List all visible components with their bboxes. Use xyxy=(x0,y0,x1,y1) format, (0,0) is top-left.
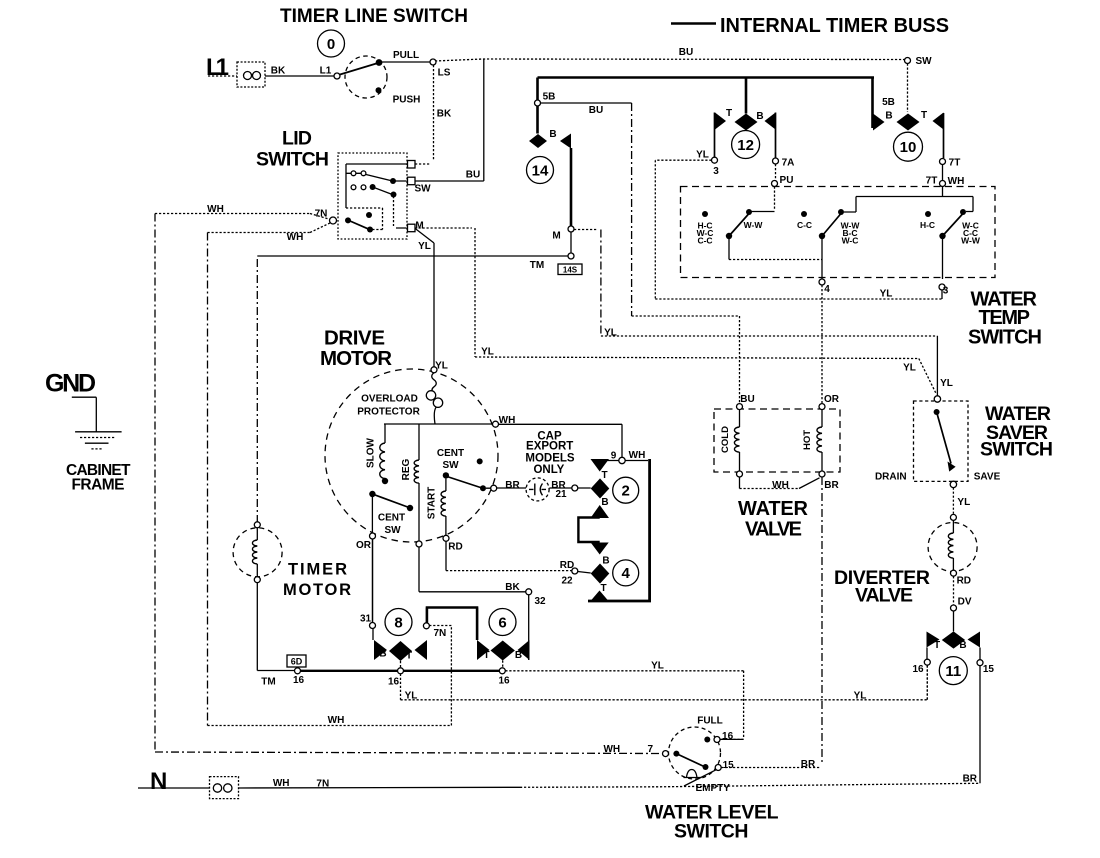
svg-text:T: T xyxy=(600,583,606,594)
svg-text:LS: LS xyxy=(438,68,451,79)
svg-text:BR: BR xyxy=(505,480,520,491)
svg-text:HOT: HOT xyxy=(802,430,813,450)
svg-text:RD: RD xyxy=(957,576,971,587)
svg-text:LID: LID xyxy=(282,128,312,150)
svg-text:ONLY: ONLY xyxy=(533,464,564,476)
svg-text:4: 4 xyxy=(824,284,830,295)
svg-text:W-W: W-W xyxy=(961,235,981,245)
svg-text:BK: BK xyxy=(505,582,520,593)
svg-text:7: 7 xyxy=(648,744,654,755)
svg-text:M: M xyxy=(415,221,423,232)
svg-text:GND: GND xyxy=(45,370,96,398)
svg-text:W-W: W-W xyxy=(744,220,764,230)
svg-text:32: 32 xyxy=(534,596,546,607)
svg-text:SWITCH: SWITCH xyxy=(256,149,329,171)
svg-text:15: 15 xyxy=(723,760,735,771)
svg-text:YL: YL xyxy=(435,361,448,372)
svg-text:CENT: CENT xyxy=(437,448,464,459)
svg-text:SWITCH: SWITCH xyxy=(980,439,1053,461)
svg-text:TIMER: TIMER xyxy=(288,561,347,579)
svg-text:4: 4 xyxy=(622,565,631,582)
svg-text:12: 12 xyxy=(737,137,754,154)
svg-text:BK: BK xyxy=(271,66,286,77)
svg-text:YL: YL xyxy=(418,241,431,252)
svg-text:MOTOR: MOTOR xyxy=(283,581,351,599)
svg-text:C-C: C-C xyxy=(797,220,812,230)
svg-text:31: 31 xyxy=(360,614,372,625)
svg-text:SW: SW xyxy=(442,460,459,471)
svg-text:T: T xyxy=(406,651,412,662)
svg-text:N: N xyxy=(150,768,167,795)
svg-text:YL: YL xyxy=(903,363,916,374)
svg-text:7T: 7T xyxy=(949,158,961,169)
svg-text:WH: WH xyxy=(772,480,789,491)
svg-text:TIMER LINE SWITCH: TIMER LINE SWITCH xyxy=(280,5,468,27)
svg-text:YL: YL xyxy=(957,497,970,508)
svg-text:B: B xyxy=(379,649,386,660)
svg-text:T: T xyxy=(483,650,489,661)
svg-text:22: 22 xyxy=(561,576,573,587)
svg-text:16: 16 xyxy=(293,675,305,686)
svg-text:YL: YL xyxy=(940,378,953,389)
svg-text:B: B xyxy=(549,129,556,140)
svg-text:WH: WH xyxy=(287,232,304,243)
svg-text:WH: WH xyxy=(948,176,965,187)
svg-text:REG: REG xyxy=(401,458,412,480)
svg-text:VALVE: VALVE xyxy=(855,585,913,607)
svg-text:B: B xyxy=(885,111,892,122)
svg-text:8: 8 xyxy=(394,614,402,631)
svg-text:T: T xyxy=(934,640,940,651)
svg-text:15: 15 xyxy=(983,664,995,675)
svg-text:7T: 7T xyxy=(926,176,938,187)
svg-text:21: 21 xyxy=(555,489,567,500)
svg-text:5B: 5B xyxy=(882,97,895,108)
svg-text:2: 2 xyxy=(622,483,630,500)
svg-text:SW: SW xyxy=(384,525,401,536)
svg-text:YL: YL xyxy=(481,347,494,358)
svg-text:5B: 5B xyxy=(543,92,556,103)
svg-text:14S: 14S xyxy=(563,266,578,275)
svg-text:WH: WH xyxy=(603,744,620,755)
svg-text:PU: PU xyxy=(780,175,794,186)
svg-text:BR: BR xyxy=(801,759,816,770)
svg-text:10: 10 xyxy=(900,139,917,156)
svg-text:BU: BU xyxy=(740,394,754,405)
svg-text:CENT: CENT xyxy=(378,513,405,524)
svg-text:B: B xyxy=(756,111,763,122)
svg-text:0: 0 xyxy=(327,36,335,53)
svg-text:MOTOR: MOTOR xyxy=(320,347,392,370)
svg-text:WH: WH xyxy=(499,415,516,426)
svg-text:DRAIN: DRAIN xyxy=(875,472,907,483)
svg-text:16: 16 xyxy=(722,731,734,742)
svg-text:L1: L1 xyxy=(206,54,229,81)
svg-text:B: B xyxy=(515,650,522,661)
svg-text:RD: RD xyxy=(448,542,462,553)
svg-text:B: B xyxy=(602,556,609,567)
svg-text:9: 9 xyxy=(611,451,617,462)
svg-text:BU: BU xyxy=(466,169,480,180)
svg-text:BR: BR xyxy=(824,480,839,491)
svg-text:16: 16 xyxy=(388,677,400,688)
svg-text:YL: YL xyxy=(604,328,617,339)
svg-text:YL: YL xyxy=(651,661,664,672)
svg-text:C-C: C-C xyxy=(697,235,712,245)
svg-text:SAVE: SAVE xyxy=(974,472,1001,483)
svg-text:TM: TM xyxy=(261,677,275,688)
svg-text:YL: YL xyxy=(405,691,418,702)
svg-text:OVERLOAD: OVERLOAD xyxy=(361,394,418,405)
svg-text:OR: OR xyxy=(356,540,372,551)
svg-text:YL: YL xyxy=(854,691,867,702)
svg-text:16: 16 xyxy=(912,664,924,675)
svg-text:BU: BU xyxy=(679,47,693,58)
svg-text:B: B xyxy=(959,640,966,651)
svg-text:WH: WH xyxy=(273,778,290,789)
svg-text:SWITCH: SWITCH xyxy=(968,327,1042,349)
svg-text:MODELS: MODELS xyxy=(525,452,575,464)
svg-text:11: 11 xyxy=(945,663,961,680)
svg-text:YL: YL xyxy=(880,289,893,300)
svg-text:WATER: WATER xyxy=(738,498,809,520)
svg-text:PROTECTOR: PROTECTOR xyxy=(357,407,420,418)
svg-text:3: 3 xyxy=(943,286,949,297)
svg-text:PUSH: PUSH xyxy=(393,95,421,106)
svg-text:WH: WH xyxy=(629,450,646,461)
svg-text:TM: TM xyxy=(530,260,544,271)
svg-text:6: 6 xyxy=(498,614,506,631)
svg-text:INTERNAL TIMER BUSS: INTERNAL TIMER BUSS xyxy=(720,15,949,37)
svg-text:SLOW: SLOW xyxy=(366,437,377,468)
svg-text:7N: 7N xyxy=(434,628,447,639)
svg-text:WH: WH xyxy=(328,715,345,726)
svg-text:BU: BU xyxy=(589,105,603,116)
svg-text:T: T xyxy=(726,108,732,119)
svg-text:SWITCH: SWITCH xyxy=(674,821,749,843)
svg-text:M: M xyxy=(552,231,560,242)
svg-text:VALVE: VALVE xyxy=(745,519,802,541)
svg-text:B: B xyxy=(601,497,608,508)
svg-text:PULL: PULL xyxy=(393,50,419,61)
svg-text:FRAME: FRAME xyxy=(72,477,125,494)
svg-text:EXPORT: EXPORT xyxy=(526,441,573,453)
svg-text:T: T xyxy=(921,110,927,121)
svg-text:14: 14 xyxy=(532,162,549,179)
svg-text:YL: YL xyxy=(696,150,709,161)
svg-text:7A: 7A xyxy=(782,158,795,169)
svg-text:7N: 7N xyxy=(316,779,329,790)
svg-text:DV: DV xyxy=(958,597,972,608)
svg-text:EMPTY: EMPTY xyxy=(695,783,730,794)
svg-text:6D: 6D xyxy=(291,657,303,667)
svg-text:OR: OR xyxy=(824,394,840,405)
svg-text:COLD: COLD xyxy=(720,426,731,453)
svg-text:W-C: W-C xyxy=(842,235,859,245)
svg-text:7N: 7N xyxy=(315,209,328,220)
svg-text:SW: SW xyxy=(414,184,431,195)
svg-text:WH: WH xyxy=(207,204,224,215)
svg-text:START: START xyxy=(427,487,438,520)
svg-text:L1: L1 xyxy=(320,66,332,77)
svg-text:H-C: H-C xyxy=(920,220,935,230)
svg-text:BR: BR xyxy=(963,774,978,785)
svg-text:BK: BK xyxy=(437,109,452,120)
svg-text:16: 16 xyxy=(498,676,510,687)
svg-text:RD: RD xyxy=(560,560,574,571)
svg-text:3: 3 xyxy=(713,166,719,177)
svg-text:T: T xyxy=(601,470,607,481)
svg-text:SW: SW xyxy=(915,56,932,67)
svg-text:FULL: FULL xyxy=(697,716,723,727)
